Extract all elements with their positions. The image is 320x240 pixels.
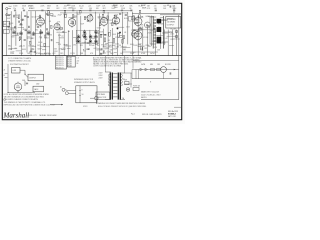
svg-text:V3 215 2.5: V3 215 2.5 <box>56 61 64 63</box>
svg-text:GZ34: GZ34 <box>141 64 145 66</box>
svg-text:.68: .68 <box>22 8 24 10</box>
svg-text:ECC83: ECC83 <box>165 64 171 66</box>
svg-text:REPRODUCED ONLY WITH WRITTEN C: REPRODUCED ONLY WITH WRITTEN CONSENT ISS… <box>4 105 55 107</box>
svg-text:820: 820 <box>170 39 173 41</box>
svg-text:330K: 330K <box>142 8 147 10</box>
svg-text:.68: .68 <box>39 27 41 29</box>
svg-text:ECC83: ECC83 <box>171 28 177 30</box>
svg-text:.0005: .0005 <box>56 32 60 34</box>
svg-text:22n: 22n <box>13 8 16 10</box>
svg-text:EL34: EL34 <box>64 45 68 47</box>
svg-text:1.6: 1.6 <box>77 58 79 60</box>
svg-text:EL34: EL34 <box>38 42 42 44</box>
svg-text:.68: .68 <box>31 49 33 51</box>
svg-text:SHT 1 OF 1: SHT 1 OF 1 <box>168 116 176 118</box>
svg-text:EL34: EL34 <box>100 53 104 55</box>
svg-text:680: 680 <box>150 64 153 66</box>
svg-text:16 OHMS: 16 OHMS <box>167 22 176 24</box>
svg-text:V6 215 2.5: V6 215 2.5 <box>56 67 64 69</box>
svg-text:GZ34: GZ34 <box>150 53 155 55</box>
svg-text:8K2: 8K2 <box>46 38 49 40</box>
svg-text:32+32: 32+32 <box>20 45 25 47</box>
svg-text:V5 215 2.5: V5 215 2.5 <box>56 65 64 67</box>
svg-text:GZ34: GZ34 <box>168 32 173 34</box>
svg-text:FOOTSWITCH CIRCUIT: FOOTSWITCH CIRCUIT <box>10 64 29 66</box>
svg-text:.68: .68 <box>107 40 109 42</box>
svg-text:8K2: 8K2 <box>31 38 34 40</box>
svg-text:220: 220 <box>77 60 80 62</box>
svg-text:8K2: 8K2 <box>56 8 59 10</box>
svg-text:1K5: 1K5 <box>80 45 83 47</box>
svg-text:VOLTAGE: VOLTAGE <box>97 93 106 96</box>
svg-text:ECC83: ECC83 <box>113 44 119 46</box>
svg-text:8K2: 8K2 <box>109 47 112 49</box>
svg-text:.68: .68 <box>31 46 33 48</box>
svg-text:EC83: EC83 <box>68 59 72 61</box>
svg-text:V4 215 2.5: V4 215 2.5 <box>56 63 64 65</box>
svg-text:8K2: 8K2 <box>47 8 50 10</box>
svg-text:1K5: 1K5 <box>77 14 80 16</box>
svg-text:820: 820 <box>58 35 61 37</box>
svg-text:.68: .68 <box>49 21 51 23</box>
svg-text:1K5: 1K5 <box>60 53 63 55</box>
svg-text:.0005: .0005 <box>112 34 116 36</box>
svg-text:MODEL 1959 100W: MODEL 1959 100W <box>40 115 57 117</box>
svg-text:2M2: 2M2 <box>19 38 23 40</box>
svg-text:GZ34: GZ34 <box>51 16 56 18</box>
svg-text:25uF: 25uF <box>138 43 142 45</box>
svg-text:.022: .022 <box>52 53 56 55</box>
svg-text:ECC83: ECC83 <box>158 23 164 25</box>
svg-text:.022: .022 <box>27 37 31 39</box>
svg-text:EL34: EL34 <box>84 17 88 19</box>
svg-text:V2 215 2.5: V2 215 2.5 <box>56 59 64 61</box>
svg-text:16: 16 <box>82 94 84 96</box>
svg-text:8K2: 8K2 <box>23 29 26 31</box>
svg-text:2M2: 2M2 <box>36 84 39 86</box>
svg-text:820: 820 <box>29 8 32 10</box>
svg-text:V1 215 2.5: V1 215 2.5 <box>56 57 64 59</box>
svg-text:SPEAKER: SPEAKER <box>167 18 176 21</box>
svg-text:680: 680 <box>98 49 101 51</box>
svg-text:CC83: CC83 <box>115 47 120 49</box>
svg-text:GZ34: GZ34 <box>145 16 150 18</box>
svg-text:SOUND CITY: SOUND CITY <box>27 115 38 117</box>
svg-text:2x4: 2x4 <box>9 6 12 8</box>
svg-text:EL34: EL34 <box>124 18 128 20</box>
svg-text:.68: .68 <box>124 32 126 34</box>
svg-text:8: 8 <box>82 90 83 92</box>
svg-text:EC83: EC83 <box>68 66 72 68</box>
svg-text:.022: .022 <box>39 37 43 39</box>
svg-text:GZ34: GZ34 <box>97 27 101 29</box>
svg-text:OUTPUT: OUTPUT <box>167 24 175 26</box>
svg-text:ECC83: ECC83 <box>143 37 149 39</box>
svg-text:680: 680 <box>148 46 151 48</box>
svg-text:84: 84 <box>77 63 79 65</box>
svg-text:2M2: 2M2 <box>110 53 114 55</box>
svg-text:CC83: CC83 <box>70 53 75 55</box>
svg-text:8K2: 8K2 <box>8 46 11 48</box>
svg-text:22n: 22n <box>123 50 126 52</box>
svg-text:5K6: 5K6 <box>114 7 117 9</box>
svg-text:EC83: EC83 <box>68 57 72 59</box>
svg-text:.68: .68 <box>167 5 170 7</box>
svg-text:32+32: 32+32 <box>32 17 37 19</box>
svg-text:EC83: EC83 <box>68 62 72 64</box>
svg-text:1K5: 1K5 <box>144 48 147 50</box>
svg-text:ECC83: ECC83 <box>106 20 112 22</box>
svg-text:Fig 1: Fig 1 <box>131 114 135 116</box>
svg-text:.0005: .0005 <box>68 7 73 9</box>
svg-text:SELECTOR: SELECTOR <box>97 97 107 99</box>
svg-text:S1: S1 <box>123 79 125 81</box>
svg-text:820: 820 <box>96 8 99 10</box>
svg-text:820: 820 <box>63 8 66 10</box>
svg-text:820: 820 <box>58 44 61 46</box>
svg-text:22n: 22n <box>121 47 124 49</box>
svg-text:1K5: 1K5 <box>73 45 76 47</box>
svg-text:Marshall: Marshall <box>3 112 30 120</box>
svg-text:OUTPUT: OUTPUT <box>29 77 36 79</box>
svg-text:EC83: EC83 <box>68 64 72 66</box>
svg-text:8K2: 8K2 <box>103 8 106 10</box>
svg-text:.68: .68 <box>84 42 86 44</box>
svg-text:.0005: .0005 <box>8 29 12 31</box>
svg-text:1K5: 1K5 <box>157 64 160 66</box>
svg-text:5K6: 5K6 <box>89 8 92 10</box>
svg-text:S/1959-2: S/1959-2 <box>168 113 176 115</box>
svg-text:8K2: 8K2 <box>35 29 38 31</box>
